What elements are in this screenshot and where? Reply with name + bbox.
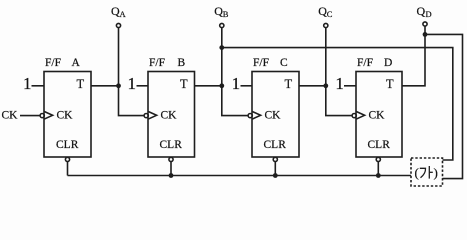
CLR active-low bubble (F/F B) bbox=[169, 157, 173, 161]
wire QB vertical column bbox=[222, 28, 248, 116]
wire CLR stem F/F D bbox=[377, 162, 379, 176]
junction CLR bus / F/F B bbox=[169, 173, 174, 178]
node QB terminal circle bbox=[220, 23, 224, 27]
wire 1 to T input of F/F B bbox=[137, 85, 149, 87]
svg-text:1: 1 bbox=[335, 74, 344, 93]
box (가) unknown gate dashed outline bbox=[411, 158, 443, 186]
svg-text:B: B bbox=[223, 9, 229, 19]
junction QB column / F/F B output bbox=[219, 83, 224, 88]
svg-text:F/F: F/F bbox=[45, 57, 61, 69]
wire QD vertical column to F/F D output bbox=[402, 26, 425, 86]
svg-text:Q: Q bbox=[417, 4, 426, 18]
junction CLR bus / F/F D bbox=[376, 173, 381, 178]
svg-text:F/F: F/F bbox=[149, 57, 165, 69]
CLR active-low bubble (F/F C) bbox=[273, 157, 277, 161]
svg-text:CLR: CLR bbox=[56, 139, 79, 151]
svg-text:T: T bbox=[386, 77, 394, 91]
clock inversion bubble (F/F A) bbox=[40, 114, 44, 118]
clock edge-trigger triangle (F/F D) bbox=[356, 111, 365, 119]
svg-text:T: T bbox=[180, 77, 188, 91]
clock inversion bubble (F/F B) bbox=[144, 114, 148, 118]
wire 1 to T input of F/F D bbox=[344, 85, 356, 87]
wire CLR stem F/F C bbox=[274, 162, 276, 176]
wire QC vertical column bbox=[326, 28, 352, 116]
svg-text:1: 1 bbox=[232, 74, 241, 93]
clock inversion bubble (F/F D) bbox=[352, 114, 356, 118]
wire CLR stem F/F B bbox=[170, 162, 172, 176]
flip-flop F/F D body bbox=[356, 72, 402, 158]
wire F/F B output to QB column bbox=[195, 85, 222, 87]
svg-text:CLR: CLR bbox=[368, 139, 391, 151]
svg-text:(: ( bbox=[415, 165, 419, 180]
svg-text:): ) bbox=[434, 165, 438, 180]
wire CLR stem F/F A bbox=[67, 162, 69, 176]
junction QA column / F/F A output bbox=[116, 83, 121, 88]
clock edge-trigger triangle (F/F B) bbox=[148, 111, 157, 119]
svg-text:A: A bbox=[120, 9, 127, 19]
svg-text:A: A bbox=[72, 57, 81, 69]
junction QD feedback branch bbox=[423, 32, 428, 37]
junction QB feedback branch bbox=[219, 45, 224, 50]
svg-text:B: B bbox=[178, 57, 186, 69]
flip-flop F/F B body bbox=[148, 72, 195, 158]
CLR active-low bubble (F/F D) bbox=[376, 157, 380, 161]
CLR active-low bubble (F/F A) bbox=[65, 157, 69, 161]
svg-text:CK: CK bbox=[57, 109, 74, 121]
svg-text:D: D bbox=[426, 9, 432, 19]
wire 1 to T input of F/F C bbox=[241, 85, 253, 87]
svg-text:CK: CK bbox=[2, 109, 19, 121]
svg-text:1: 1 bbox=[23, 74, 32, 93]
svg-text:C: C bbox=[280, 57, 288, 69]
svg-text:1: 1 bbox=[128, 74, 137, 93]
svg-text:CK: CK bbox=[369, 109, 386, 121]
wire 1 to T input of F/F A bbox=[32, 85, 45, 87]
node QA terminal circle bbox=[116, 23, 120, 27]
clock edge-trigger triangle (F/F A) bbox=[44, 111, 53, 119]
wire QD feedback to box (가) bbox=[425, 34, 463, 178]
wire F/F A output to QA column bbox=[91, 85, 119, 87]
flip-flop F/F C body bbox=[252, 72, 299, 158]
svg-text:F/F: F/F bbox=[357, 57, 373, 69]
label (가) hangul GA glyph drawn as strokes bbox=[420, 168, 426, 178]
svg-text:CLR: CLR bbox=[160, 139, 183, 151]
node QD terminal circle bbox=[423, 22, 427, 26]
svg-text:CLR: CLR bbox=[264, 139, 287, 151]
flip-flop F/F A body bbox=[44, 72, 91, 158]
svg-text:C: C bbox=[327, 9, 333, 19]
wire QA vertical column bbox=[119, 28, 145, 116]
node QC terminal circle bbox=[324, 23, 328, 27]
svg-text:CK: CK bbox=[265, 109, 282, 121]
wire F/F C output to QC column bbox=[299, 85, 326, 87]
svg-text:T: T bbox=[77, 77, 85, 91]
wire CK input to F/F A clock bbox=[20, 115, 40, 117]
svg-text:T: T bbox=[285, 77, 293, 91]
svg-text:F/F: F/F bbox=[253, 57, 269, 69]
svg-text:D: D bbox=[384, 57, 392, 69]
svg-text:CK: CK bbox=[161, 109, 178, 121]
wire QB feedback to box (가) bbox=[222, 48, 453, 160]
clock inversion bubble (F/F C) bbox=[248, 114, 252, 118]
clock edge-trigger triangle (F/F C) bbox=[252, 111, 261, 119]
wire CLR bus to box (가) bbox=[68, 175, 412, 177]
junction CLR bus / F/F C bbox=[273, 173, 278, 178]
junction QC column / F/F C output bbox=[323, 83, 328, 88]
